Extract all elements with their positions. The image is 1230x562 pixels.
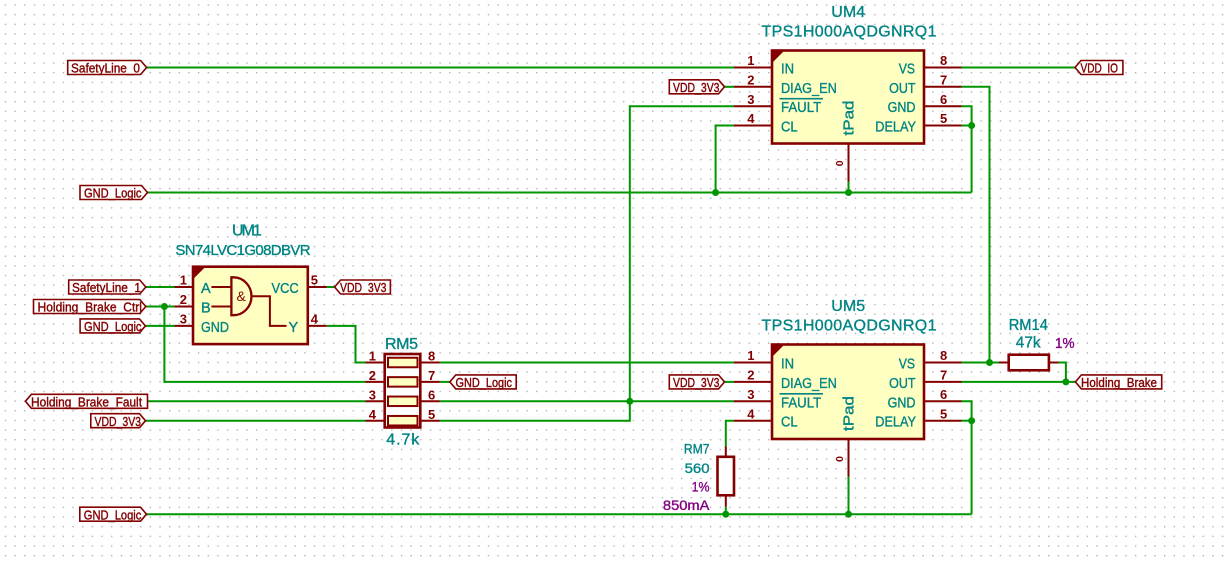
wire GND_Logic upper horizontal run <box>148 192 972 194</box>
UM4 pin 8 VS <box>924 67 962 69</box>
svg-text:GND: GND <box>888 395 916 411</box>
svg-text:VCC: VCC <box>272 281 299 297</box>
svg-text:CL: CL <box>781 415 798 431</box>
svg-text:Y: Y <box>289 320 299 336</box>
wire UM1 Y to RM5 pin 1 <box>327 326 366 363</box>
svg-text:850mA: 850mA <box>663 497 710 513</box>
wire UM5 DELAY to GND branch <box>962 420 972 422</box>
wire GND_Logic lower horizontal run <box>147 513 972 515</box>
svg-text:IN: IN <box>781 62 794 78</box>
RM5 pin 2 <box>366 381 385 383</box>
RM5 pin 4 <box>366 420 385 422</box>
wire Holding_Brake_Ctrl branch to RM5 pin 2 <box>164 307 365 382</box>
svg-text:6: 6 <box>940 387 947 402</box>
junction UM4 DELAY-GND <box>968 122 975 129</box>
svg-text:B: B <box>201 301 211 317</box>
svg-text:3: 3 <box>747 92 754 107</box>
RM5 pin 5 <box>420 420 440 422</box>
wire UM4 VS to VDD_IO <box>962 67 1076 69</box>
RM5 pin 3 <box>366 400 385 402</box>
UM5 pin 6 GND <box>924 400 962 402</box>
svg-text:VDD_3V3: VDD_3V3 <box>340 280 387 295</box>
svg-text:5: 5 <box>311 273 318 288</box>
net label SafetyLine_1 <box>69 280 146 294</box>
wire Holding_Brake_Fault to RM5 pin 3 <box>148 400 366 402</box>
svg-text:VDD_IO: VDD_IO <box>1081 61 1119 76</box>
junction Holding_Brake_Ctrl branch <box>161 303 168 310</box>
svg-text:FAULT: FAULT <box>781 395 821 411</box>
svg-text:GND_Logic: GND_Logic <box>84 186 142 201</box>
svg-text:RM5: RM5 <box>385 336 418 353</box>
wire UM4 CL to GND run <box>716 126 734 193</box>
junction VS node at RM14 <box>986 359 993 366</box>
net label GND_Logic at UM1 <box>80 319 145 333</box>
svg-text:tPad: tPad <box>842 396 858 431</box>
svg-text:CL: CL <box>781 120 798 136</box>
svg-text:DELAY: DELAY <box>875 120 916 136</box>
RM5 resistor element 2 <box>388 377 418 387</box>
svg-text:8: 8 <box>428 349 435 364</box>
svg-text:tPad: tPad <box>842 101 858 136</box>
svg-text:VS: VS <box>899 357 915 373</box>
wire RM14 right to Holding_Brake node <box>1059 363 1066 382</box>
UM5 pin 1 IN <box>734 362 772 364</box>
svg-text:OUT: OUT <box>889 81 916 97</box>
UM5 pin 8 VS <box>924 362 962 364</box>
svg-text:FAULT: FAULT <box>781 100 821 116</box>
svg-text:4: 4 <box>747 406 755 421</box>
net label GND_Logic at RM5 pin 7 <box>450 375 516 389</box>
svg-text:SafetyLine_1: SafetyLine_1 <box>72 280 141 295</box>
resistor RM14 <box>1009 355 1049 371</box>
wire UM5 CL to RM7 top <box>726 421 734 447</box>
svg-text:8: 8 <box>940 348 947 363</box>
wire GND_Logic to UM1 GND <box>145 325 174 327</box>
net label VDD_3V3 at UM4 DIAG_EN <box>669 80 724 94</box>
svg-text:4: 4 <box>369 407 377 422</box>
UM4 pin 2 DIAG_EN <box>734 86 772 88</box>
svg-text:UM4: UM4 <box>831 4 865 21</box>
svg-text:OUT: OUT <box>889 376 916 392</box>
junction UM4 CL on GND run <box>712 189 719 196</box>
wire RM5 pin 8 to UM5 IN <box>440 362 734 364</box>
op-amp UM4 body <box>772 51 924 144</box>
svg-text:47k: 47k <box>1016 335 1042 352</box>
UM4 pin 5 DELAY <box>924 125 962 127</box>
RM5 resistor element 3 <box>388 397 418 407</box>
net label Holding_Brake_Fault <box>25 394 147 408</box>
UM1 pin 1 A <box>175 286 194 288</box>
svg-text:1: 1 <box>747 348 754 363</box>
svg-text:0: 0 <box>834 456 846 462</box>
wire UM5 GND down to GND run <box>962 401 972 514</box>
net label Holding_Brake_Ctrl <box>34 300 146 314</box>
svg-text:VDD_3V3: VDD_3V3 <box>95 414 142 429</box>
svg-text:TPS1H000AQDGNRQ1: TPS1H000AQDGNRQ1 <box>762 23 937 40</box>
RM5 pin 7 <box>420 381 440 383</box>
svg-text:8: 8 <box>940 53 947 68</box>
svg-text:VS: VS <box>899 62 915 78</box>
gate UM1 body <box>193 267 308 344</box>
UM4 pin 1 IN <box>734 67 772 69</box>
svg-text:5: 5 <box>428 407 435 422</box>
wire UM4 GND down to GND run <box>962 106 972 192</box>
net label GND_Logic upper <box>80 186 148 200</box>
wire SafetyLine_1 to UM1 A <box>146 286 175 288</box>
junction Holding_Brake node <box>1062 378 1069 385</box>
svg-text:RM7: RM7 <box>684 441 710 457</box>
net label VDD_3V3 at RM5 pin 4 <box>91 414 146 428</box>
svg-text:VDD_3V3: VDD_3V3 <box>673 80 720 95</box>
junction RM7 on GND run <box>722 511 729 518</box>
svg-text:GND_Logic: GND_Logic <box>84 319 142 334</box>
resistor network RM5 outline <box>385 354 421 428</box>
UM5 pin 3 FAULT <box>734 400 772 402</box>
wire SafetyLine_0 to UM4 IN <box>147 67 734 69</box>
UM4 pin 3 FAULT <box>734 105 772 107</box>
UM4 pin 6 GND <box>924 105 962 107</box>
svg-text:3: 3 <box>180 312 187 327</box>
UM1 pin 3 GND <box>175 325 194 327</box>
junction UM4 tPad on GND run <box>845 189 852 196</box>
svg-text:4: 4 <box>747 111 755 126</box>
svg-text:1%: 1% <box>1055 336 1075 352</box>
wire VDD_3V3 to UM5 DIAG_EN <box>725 381 735 383</box>
svg-text:1%: 1% <box>692 478 710 494</box>
svg-text:3: 3 <box>747 387 754 402</box>
svg-text:A: A <box>201 281 211 297</box>
svg-text:5: 5 <box>940 406 947 421</box>
net label VDD_IO <box>1075 61 1123 75</box>
svg-text:UM5: UM5 <box>831 298 865 315</box>
net label Holding_Brake <box>1075 375 1161 389</box>
wire UM5 VS to RM14 left <box>962 362 1000 364</box>
net label VDD_3V3 at UM5 DIAG_EN <box>669 375 724 389</box>
svg-text:&: & <box>237 288 247 304</box>
wire RM5 pin 7 to GND_Logic label <box>440 381 450 383</box>
UM4 pin 7 OUT <box>924 86 962 88</box>
junction UM5 tPad on GND run <box>845 511 852 518</box>
wire UM4 OUT down to RM14 node <box>962 87 990 363</box>
wire VDD_3V3 to UM4 DIAG_EN <box>725 86 735 88</box>
wire VDD_3V3 to RM5 pin 4 <box>146 420 366 422</box>
svg-text:Holding_Brake_Fault: Holding_Brake_Fault <box>31 395 142 410</box>
wire UM4 FAULT vertical to fault net <box>630 106 734 401</box>
net label GND_Logic lower <box>80 507 147 521</box>
svg-text:GND_Logic: GND_Logic <box>84 507 142 522</box>
UM1 AND gate symbol <box>231 277 251 315</box>
net label VDD_3V3 at UM1 VCC <box>335 280 391 294</box>
RM5 pin 1 <box>366 362 385 364</box>
junction UM5 DELAY-GND <box>968 417 975 424</box>
svg-text:SafetyLine_0: SafetyLine_0 <box>71 61 140 76</box>
svg-text:4.7k: 4.7k <box>386 431 420 448</box>
svg-text:GND_Logic: GND_Logic <box>456 375 513 390</box>
svg-text:DIAG_EN: DIAG_EN <box>781 376 837 392</box>
RM5 resistor element 1 <box>388 358 418 368</box>
svg-text:7: 7 <box>428 368 435 383</box>
UM5 pin 4 CL <box>734 420 772 422</box>
wire RM7 bottom to GND run <box>725 507 727 515</box>
svg-text:3: 3 <box>369 388 376 403</box>
UM1 pin 4 Y <box>308 325 327 327</box>
resistor RM7 <box>718 457 735 496</box>
wire UM5 tPad to GND run <box>848 477 850 515</box>
svg-text:IN: IN <box>781 357 794 373</box>
svg-text:4: 4 <box>311 312 319 327</box>
net label SafetyLine_0 <box>68 61 147 75</box>
svg-text:DELAY: DELAY <box>875 415 916 431</box>
UM1 pin 2 B <box>175 306 194 308</box>
svg-text:SN74LVC1G08DBVR: SN74LVC1G08DBVR <box>175 242 310 259</box>
RM5 pin 8 <box>420 362 440 364</box>
UM5 pin 2 DIAG_EN <box>734 381 772 383</box>
wire UM5 OUT to Holding_Brake <box>962 381 1076 383</box>
svg-text:VDD_3V3: VDD_3V3 <box>673 375 720 390</box>
svg-text:2: 2 <box>747 368 754 383</box>
RM5 resistor element 4 <box>388 416 418 426</box>
svg-text:6: 6 <box>940 92 947 107</box>
svg-text:Holding_Brake: Holding_Brake <box>1081 375 1157 390</box>
UM4 pin 4 CL <box>734 125 772 127</box>
svg-text:Holding_Brake_Ctrl: Holding_Brake_Ctrl <box>38 300 143 315</box>
wire UM4 tPad to GND run <box>848 182 850 193</box>
wire RM5 pin 5 up to fault node <box>440 401 630 420</box>
svg-text:2: 2 <box>180 292 187 307</box>
UM1 pin 5 VCC <box>308 286 327 288</box>
svg-text:TPS1H000AQDGNRQ1: TPS1H000AQDGNRQ1 <box>762 317 937 334</box>
wire Holding_Brake_Ctrl to UM1 B <box>146 306 175 308</box>
svg-text:0: 0 <box>834 160 846 166</box>
wire UM1 VCC to VDD_3V3 <box>327 286 335 288</box>
svg-text:2: 2 <box>747 73 754 88</box>
svg-text:7: 7 <box>940 368 947 383</box>
junction fault net at RM5 <box>626 398 633 405</box>
svg-text:7: 7 <box>940 73 947 88</box>
op-amp UM5 body <box>772 345 924 440</box>
svg-text:UM1: UM1 <box>232 223 262 240</box>
wire RM5 pin 6 to UM5 FAULT <box>440 400 734 402</box>
svg-text:560: 560 <box>685 460 710 476</box>
svg-text:GND: GND <box>888 100 916 116</box>
svg-text:1: 1 <box>747 53 754 68</box>
svg-text:1: 1 <box>369 349 376 364</box>
svg-text:1: 1 <box>180 273 187 288</box>
wire UM4 DELAY to GND branch <box>962 125 972 127</box>
RM5 pin 6 <box>420 400 440 402</box>
svg-text:DIAG_EN: DIAG_EN <box>781 81 837 97</box>
UM5 pin 7 OUT <box>924 381 962 383</box>
svg-text:6: 6 <box>428 388 435 403</box>
UM5 pin 5 DELAY <box>924 420 962 422</box>
svg-text:GND: GND <box>201 320 229 336</box>
svg-text:RM14: RM14 <box>1009 317 1048 334</box>
UM4 pin 0 tPad <box>848 144 850 182</box>
svg-text:5: 5 <box>940 111 947 126</box>
svg-text:2: 2 <box>369 368 376 383</box>
UM5 pin 0 tPad <box>848 439 850 477</box>
